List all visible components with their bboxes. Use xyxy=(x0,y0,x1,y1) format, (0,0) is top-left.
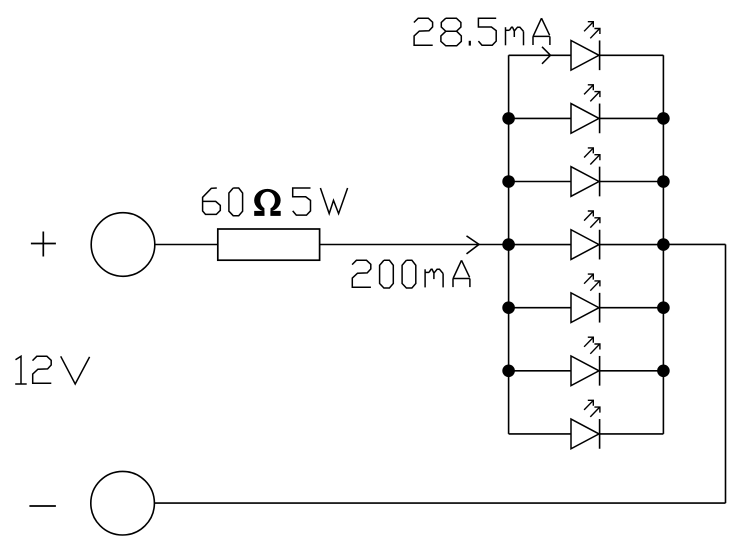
wire left rail to LED D2 anode xyxy=(509,117,571,119)
wire left rail of LED array xyxy=(508,55,510,434)
junction right rail row 4 xyxy=(657,238,670,251)
wire LED D2 cathode to right rail xyxy=(600,117,664,119)
wire bottom return to minus terminal xyxy=(154,502,725,504)
LED D2 xyxy=(571,85,600,134)
LED D1 xyxy=(571,22,600,71)
junction left rail row 5 xyxy=(502,301,515,314)
wire LED D1 cathode to right rail xyxy=(600,54,664,56)
wire left rail to LED D3 anode xyxy=(509,181,571,183)
wire left rail to LED D6 anode xyxy=(509,370,571,372)
junction right rail row 3 xyxy=(657,175,670,188)
junction right rail row 2 xyxy=(657,112,670,125)
label + (positive terminal sign) xyxy=(31,232,56,257)
wire LED D5 cathode to right rail xyxy=(600,307,664,309)
terminal plus (battery + connection circle) xyxy=(91,213,155,277)
label − (negative terminal sign) xyxy=(29,505,56,507)
wire plus terminal to resistor xyxy=(155,244,218,246)
wire right rail to far right vertical xyxy=(663,243,725,245)
wire left rail to LED D7 anode xyxy=(509,433,571,435)
label 28.5mA (current per LED) xyxy=(414,18,550,46)
LED D4 xyxy=(571,211,600,260)
junction right rail row 6 xyxy=(657,365,670,378)
current direction arrowhead 200mA xyxy=(467,236,480,254)
wire left rail to LED D4 anode xyxy=(509,244,571,246)
terminal minus (battery − connection circle) xyxy=(91,471,155,535)
wire resistor to LED array left rail xyxy=(320,244,509,246)
junction left rail row 3 xyxy=(502,175,515,188)
wire LED D7 cathode to right rail xyxy=(600,433,664,435)
junction left rail row 6 xyxy=(502,365,515,378)
label 200mA (current into LED array) xyxy=(352,260,470,288)
LED D3 xyxy=(571,148,600,197)
LED D7 xyxy=(571,400,600,449)
wire left rail to LED D1 anode xyxy=(509,54,571,56)
wire LED D6 cathode to right rail xyxy=(600,370,664,372)
wire LED D4 cathode to right rail xyxy=(600,244,664,246)
resistor R1 60 ohm 5W xyxy=(218,229,320,260)
wire right rail of LED array xyxy=(662,55,664,434)
LED D5 xyxy=(571,274,600,323)
junction left rail row 2 xyxy=(502,112,515,125)
wire LED D3 cathode to right rail xyxy=(600,181,664,183)
LED D6 xyxy=(571,337,600,386)
wire left rail to LED D5 anode xyxy=(509,307,571,309)
junction left rail row 4 xyxy=(502,238,515,251)
junction right rail row 5 xyxy=(657,301,670,314)
label 12V xyxy=(15,356,89,384)
label 60Ω5W (resistor value) xyxy=(203,188,348,217)
current direction arrowhead 28.5mA into LED D1 xyxy=(542,47,551,64)
wire far right vertical down xyxy=(725,244,727,503)
